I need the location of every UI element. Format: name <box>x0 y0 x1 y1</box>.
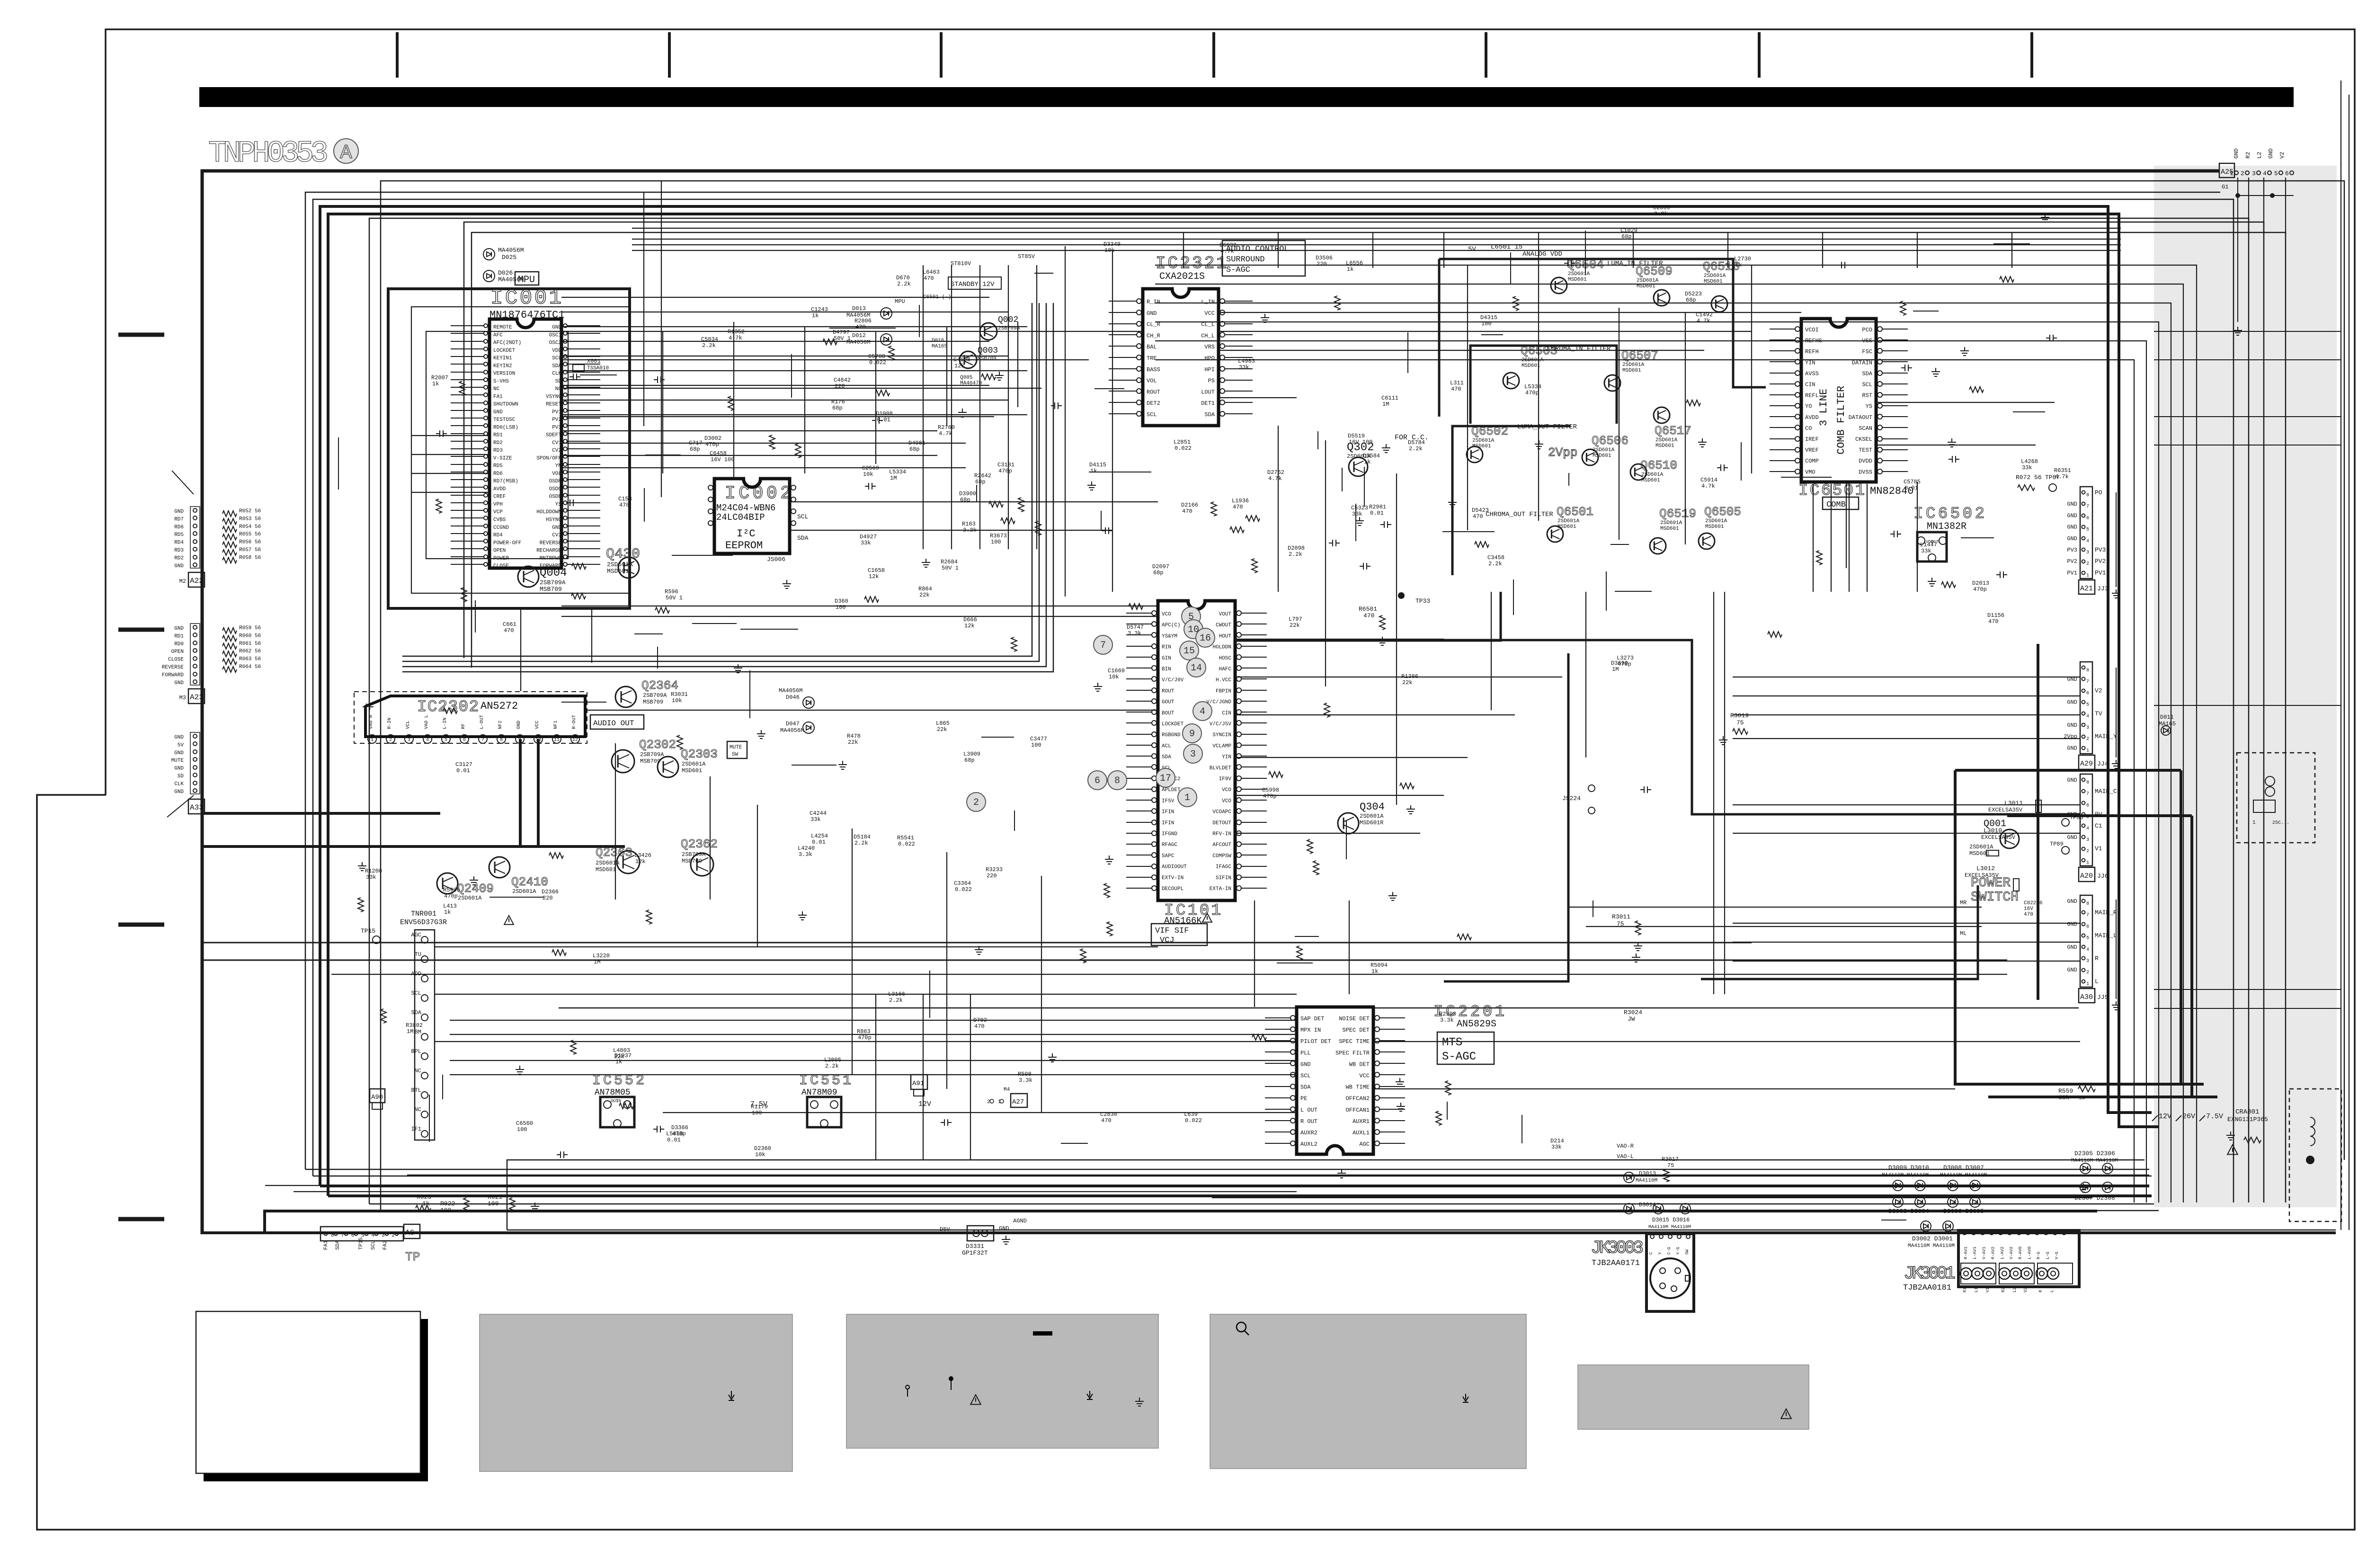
ground <box>1634 942 1642 951</box>
svg-text:3.3k: 3.3k <box>799 851 812 858</box>
svg-text:R060 56: R060 56 <box>239 633 261 639</box>
wire <box>663 1112 1297 1113</box>
svg-text:VCO: VCO <box>1222 787 1231 793</box>
svg-text:3 LINE: 3 LINE <box>1818 389 1830 426</box>
svg-text:RD4: RD4 <box>174 540 184 546</box>
svg-text:5V: 5V <box>1468 246 1476 253</box>
svg-text:220: 220 <box>543 895 553 901</box>
power bus audio horizontal 2 <box>201 812 440 815</box>
svg-text:1k: 1k <box>1347 266 1353 273</box>
svg-text:SDA: SDA <box>335 1240 341 1250</box>
svg-text:2: 2 <box>2086 970 2089 975</box>
svg-text:10k: 10k <box>1109 674 1119 680</box>
resistor network <box>222 534 237 540</box>
svg-text:DVDD: DVDD <box>1859 458 1872 464</box>
svg-text:MSD601: MSD601 <box>607 568 629 575</box>
svg-text:R021: R021 <box>488 1194 502 1201</box>
svg-text:A27: A27 <box>1012 1098 1024 1106</box>
wire to connector <box>1733 804 2080 805</box>
svg-text:SCL: SCL <box>1300 1073 1311 1079</box>
svg-text:D5V: D5V <box>940 1226 950 1233</box>
wire <box>710 776 711 900</box>
svg-text:C2830: C2830 <box>1100 1111 1117 1118</box>
wire <box>875 994 876 1160</box>
svg-text:G1: G1 <box>2222 184 2228 190</box>
bus wire <box>559 1007 2079 1009</box>
wire drop long <box>661 181 662 497</box>
svg-text:DATAIN: DATAIN <box>1852 359 1872 366</box>
legend box gray 3 <box>846 1314 1158 1448</box>
svg-text:REMOTE: REMOTE <box>493 325 512 330</box>
svg-text:GND: GND <box>2067 921 2077 927</box>
svg-text:33k: 33k <box>1352 511 1362 517</box>
svg-text:HOUT: HOUT <box>1219 633 1232 639</box>
svg-text:EXTV-IN: EXTV-IN <box>1162 875 1183 881</box>
heavy route IC101 to comb <box>1235 640 2080 814</box>
svg-text:APC(C): APC(C) <box>1162 623 1181 628</box>
svg-text:2SD601A: 2SD601A <box>1557 518 1580 524</box>
svg-text:L_IN: L_IN <box>1201 299 1215 305</box>
svg-text:REFL: REFL <box>1805 392 1819 399</box>
svg-text:SPEC FILTR: SPEC FILTR <box>1335 1050 1370 1056</box>
bus wire top band <box>632 239 2121 240</box>
resistor network <box>222 659 237 665</box>
svg-text:R1200: R1200 <box>365 868 382 874</box>
wire <box>1849 484 1850 592</box>
svg-text:S-AGC: S-AGC <box>1226 266 1250 275</box>
ground <box>1448 499 1457 507</box>
svg-text:100: 100 <box>1031 742 1041 748</box>
ruler tick top <box>1212 32 1215 78</box>
svg-text:L2851: L2851 <box>1174 439 1191 445</box>
svg-text:R: R <box>2095 955 2099 962</box>
svg-text:2SC...: 2SC... <box>2272 820 2289 826</box>
svg-text:470p: 470p <box>705 441 719 448</box>
ground <box>1105 855 1113 864</box>
svg-text:Q6519: Q6519 <box>1659 507 1696 521</box>
svg-text:OSC2: OSC2 <box>549 340 561 346</box>
svg-text:75: 75 <box>1736 719 1744 726</box>
svg-text:MUTE: MUTE <box>171 758 184 764</box>
svg-text:22k: 22k <box>1402 679 1413 686</box>
svg-text:A90: A90 <box>371 1094 383 1101</box>
connector A6 <box>320 1227 403 1241</box>
svg-text:GIN: GIN <box>1162 656 1171 661</box>
svg-text:RECHARGE: RECHARGE <box>536 548 561 554</box>
wire <box>946 852 947 1089</box>
svg-text:1k: 1k <box>422 1200 430 1207</box>
svg-text:68k: 68k <box>2058 1094 2070 1101</box>
svg-text:100: 100 <box>517 1126 527 1133</box>
svg-text:2SB709A: 2SB709A <box>643 692 667 699</box>
warning symbol <box>2227 1145 2238 1154</box>
ground <box>1698 438 1707 447</box>
svg-text:8: 8 <box>331 1233 334 1238</box>
svg-text:V/C/J9V: V/C/J9V <box>1162 677 1184 683</box>
svg-text:3: 3 <box>2086 725 2089 731</box>
wire A25 gnd <box>2237 178 2238 322</box>
svg-text:12V: 12V <box>2159 1113 2171 1121</box>
svg-text:4: 4 <box>1200 706 1205 717</box>
svg-text:L2: L2 <box>2256 152 2263 159</box>
svg-text:M3: M3 <box>179 695 186 701</box>
svg-text:OPEN: OPEN <box>171 649 184 655</box>
svg-text:DET1: DET1 <box>1201 400 1215 407</box>
svg-text:GND: GND <box>999 1225 1009 1232</box>
callout 5 <box>1182 607 1201 626</box>
svg-text:CIN: CIN <box>1222 711 1231 716</box>
svg-text:6: 6 <box>463 738 466 743</box>
svg-text:100: 100 <box>752 1110 762 1116</box>
resistor network <box>222 511 237 517</box>
svg-text:1: 1 <box>371 738 374 743</box>
svg-text:10: 10 <box>535 738 541 743</box>
svg-text:TEST: TEST <box>1859 447 1872 454</box>
wire drop <box>1917 232 1918 268</box>
svg-text:REVERSE: REVERSE <box>540 540 562 546</box>
resistor network <box>222 518 237 524</box>
svg-text:1k: 1k <box>1364 459 1370 465</box>
svg-text:CV2: CV2 <box>552 448 561 454</box>
svg-text:R3019: R3019 <box>1730 712 1749 719</box>
heavy route 4 <box>1235 592 1501 641</box>
svg-text:AVDD: AVDD <box>1805 414 1819 421</box>
svg-text:68p: 68p <box>832 405 843 411</box>
svg-text:V1: V1 <box>1985 1287 1990 1292</box>
svg-text:JJ3: JJ3 <box>2097 585 2108 592</box>
ground <box>1388 892 1397 900</box>
svg-text:470: 470 <box>1451 386 1461 392</box>
svg-text:R063 56: R063 56 <box>239 657 261 662</box>
diode D047 <box>803 722 814 733</box>
svg-text:CLOSE: CLOSE <box>493 563 509 569</box>
wire <box>1219 312 1801 313</box>
svg-text:RD6: RD6 <box>174 525 184 530</box>
svg-text:PCO: PCO <box>1862 327 1872 333</box>
svg-text:0.01: 0.01 <box>1370 510 1384 517</box>
ruler tick top <box>1758 32 1761 78</box>
svg-text:C3458: C3458 <box>1487 554 1504 561</box>
svg-text:EXNG131P365: EXNG131P365 <box>2227 1116 2268 1123</box>
wire drop <box>1727 232 1728 268</box>
svg-text:AGC: AGC <box>1359 1141 1370 1148</box>
diode D3010 <box>1915 1180 1925 1191</box>
svg-text:REFH: REFH <box>1805 348 1819 355</box>
svg-text:SCL: SCL <box>371 1240 376 1250</box>
bus wire ring 5 thick <box>328 214 2159 1196</box>
svg-text:FA2: FA2 <box>383 1240 388 1250</box>
label box STANDBY 12V <box>948 277 1001 289</box>
svg-text:HOLDDN: HOLDDN <box>1212 645 1231 650</box>
bus wire mid ring 3 <box>402 303 1046 667</box>
svg-text:D2098: D2098 <box>1288 545 1305 552</box>
wire <box>875 331 876 464</box>
bus wire top band <box>632 228 2121 229</box>
svg-text:PV2: PV2 <box>2067 558 2077 565</box>
svg-text:R3024: R3024 <box>1624 1009 1642 1016</box>
svg-text:RD1: RD1 <box>174 633 184 639</box>
ruler tick top <box>940 32 943 78</box>
svg-text:PV3: PV3 <box>552 425 561 430</box>
ground <box>2226 1131 2235 1140</box>
svg-text:26V: 26V <box>2182 1113 2195 1121</box>
svg-text:C4842: C4842 <box>834 377 851 383</box>
JK3003 pins <box>1650 1235 1654 1238</box>
wire <box>561 359 1089 360</box>
wire <box>1112 251 1113 592</box>
wire <box>1278 426 1279 592</box>
svg-text:470: 470 <box>1182 508 1192 515</box>
transistor Q6517 <box>1654 407 1670 423</box>
svg-text:ADD: ADD <box>411 971 421 977</box>
svg-text:L-AVO: L-AVO <box>2027 1247 2032 1259</box>
svg-text:COMB: COMB <box>1826 500 1846 509</box>
svg-text:AN5166K: AN5166K <box>1164 916 1202 926</box>
svg-text:GND: GND <box>2067 722 2077 729</box>
svg-text:COMPSW: COMPSW <box>1212 853 1231 859</box>
svg-text:9: 9 <box>518 738 521 743</box>
svg-text:MSD601R: MSD601R <box>1360 820 1383 826</box>
svg-text:16V 100: 16V 100 <box>711 456 734 463</box>
svg-text:GND: GND <box>2067 898 2077 905</box>
svg-text:VCOI: VCOI <box>1805 327 1819 333</box>
resistor network <box>222 526 237 532</box>
bus wire ring 2 <box>305 192 2220 1169</box>
wire stub gray <box>2154 331 2341 332</box>
svg-text:JJ5: JJ5 <box>2097 994 2108 1001</box>
transistor Q6506 <box>1582 449 1598 465</box>
diode D2306 <box>2102 1163 2113 1174</box>
svg-text:2SB709A: 2SB709A <box>640 751 664 758</box>
wire stub gray <box>2154 445 2341 445</box>
IC6502 body <box>1917 532 1947 561</box>
svg-text:4.7k: 4.7k <box>1697 318 1710 324</box>
svg-text:6: 6 <box>351 1233 355 1238</box>
svg-text:NC: NC <box>415 1068 421 1074</box>
label box MTS S-AGC <box>1437 1032 1494 1064</box>
bus wire ring 6 <box>369 218 2249 1204</box>
svg-text:D3349: D3349 <box>1103 241 1121 248</box>
svg-text:RD2: RD2 <box>174 555 184 561</box>
IC2321 left pins <box>1137 299 1141 303</box>
svg-text:R2: R2 <box>2245 152 2251 159</box>
svg-text:FBPIN: FBPIN <box>1216 688 1231 694</box>
svg-text:GND: GND <box>2067 745 2077 751</box>
svg-text:KEYIN1: KEYIN1 <box>493 356 512 361</box>
bus wire ring 1 bottom <box>381 1210 2159 1212</box>
svg-text:TV: TV <box>2095 710 2102 717</box>
transistor Q302 <box>1349 457 1368 476</box>
svg-text:YIN: YIN <box>1222 755 1231 760</box>
wire <box>1491 592 1492 710</box>
svg-text:D670: D670 <box>896 275 910 281</box>
svg-text:C5785: C5785 <box>1904 479 1921 485</box>
svg-text:5: 5 <box>2086 815 2089 820</box>
wire <box>1467 265 1468 530</box>
svg-text:L-G: L-G <box>2046 1252 2050 1259</box>
ground <box>757 730 765 739</box>
diode D2308 <box>2102 1182 2113 1193</box>
svg-text:V-G: V-G <box>2055 1252 2059 1259</box>
svg-text:R_IN: R_IN <box>1147 299 1160 305</box>
svg-text:C1: C1 <box>2095 822 2102 829</box>
svg-text:2.2k: 2.2k <box>825 1063 839 1069</box>
svg-text:D5584: D5584 <box>1363 453 1380 459</box>
svg-text:MA4056M: MA4056M <box>498 247 524 254</box>
wire <box>561 341 989 342</box>
svg-text:MSD601: MSD601 <box>1568 277 1587 283</box>
svg-text:L1936: L1936 <box>1232 498 1249 504</box>
dashed degauss block <box>2289 1089 2341 1221</box>
svg-text:MSB709: MSB709 <box>682 858 702 864</box>
callout 4 <box>1193 702 1212 721</box>
bus wire ring 8 <box>472 232 2286 1203</box>
svg-text:75: 75 <box>1667 1162 1674 1169</box>
wire A25 pin drop <box>2248 178 2249 234</box>
IC002 right pins <box>791 485 796 490</box>
svg-text:SDA: SDA <box>1862 370 1872 377</box>
svg-text:2SD601A: 2SD601A <box>1593 447 1615 453</box>
wire <box>1373 1088 1955 1089</box>
svg-text:MSD601: MSD601 <box>1472 444 1491 449</box>
wire <box>1219 331 1752 332</box>
svg-text:IF1: IF1 <box>411 1126 421 1132</box>
wire <box>733 322 734 479</box>
wire <box>520 608 521 691</box>
svg-text:YS&YM: YS&YM <box>1162 633 1177 639</box>
svg-text:MSB709: MSB709 <box>540 586 562 593</box>
svg-text:R2007: R2007 <box>431 374 448 381</box>
svg-text:C6111: C6111 <box>1381 395 1398 401</box>
svg-text:DVSS: DVSS <box>1859 469 1872 475</box>
svg-text:VCP: VCP <box>493 509 503 515</box>
svg-text:1k: 1k <box>1090 468 1097 474</box>
svg-text:4: 4 <box>2263 170 2267 177</box>
ground <box>1261 314 1269 322</box>
svg-text:R5094: R5094 <box>1370 962 1388 969</box>
svg-text:2.2k: 2.2k <box>854 840 868 846</box>
test point TP88 <box>2062 819 2069 826</box>
svg-text:0.022: 0.022 <box>955 886 972 893</box>
svg-text:CLK: CLK <box>174 781 184 787</box>
svg-text:R176: R176 <box>831 399 845 405</box>
legend box white with shadow <box>420 1319 428 1481</box>
svg-text:RD3: RD3 <box>493 448 503 454</box>
ground <box>1948 438 1956 447</box>
ground <box>1406 805 1415 814</box>
wire <box>1867 484 1868 592</box>
svg-text:MSD601: MSD601 <box>1641 478 1660 483</box>
svg-text:D666: D666 <box>963 616 977 623</box>
svg-text:S-AGC: S-AGC <box>1442 1051 1476 1063</box>
svg-text:0.022: 0.022 <box>1175 445 1192 452</box>
svg-text:5: 5 <box>2086 527 2089 533</box>
svg-text:Q2362: Q2362 <box>681 837 718 851</box>
ground <box>1632 953 1640 962</box>
svg-text:3: 3 <box>1190 749 1196 760</box>
wire drop long 2 <box>643 192 644 426</box>
svg-text:2SD601A: 2SD601A <box>1360 813 1384 820</box>
board outline bottom <box>201 1231 2336 1234</box>
diode D013 <box>881 308 892 319</box>
wire <box>561 430 937 431</box>
svg-text:33k: 33k <box>366 874 376 881</box>
heavy route 2 <box>1444 653 1568 981</box>
svg-text:JK3001: JK3001 <box>1904 1264 1956 1284</box>
svg-text:RD5: RD5 <box>493 463 503 469</box>
svg-text:D2166: D2166 <box>1181 502 1198 508</box>
svg-text:0.01: 0.01 <box>812 839 826 846</box>
svg-text:470: 470 <box>1101 1117 1112 1124</box>
svg-text:HPI: HPI <box>1204 366 1215 373</box>
svg-text:D214: D214 <box>1550 1138 1564 1144</box>
svg-text:GND: GND <box>516 721 522 729</box>
resistor network <box>222 542 237 548</box>
svg-text:R-AV1: R-AV1 <box>1964 1247 1968 1259</box>
net label 12V <box>2152 1115 2158 1121</box>
svg-text:C5914: C5914 <box>1700 477 1717 483</box>
wire <box>615 743 616 900</box>
svg-text:RD3: RD3 <box>174 548 184 553</box>
svg-text:DECOUPL: DECOUPL <box>1162 886 1183 892</box>
ground <box>1928 578 1936 586</box>
svg-text:JW: JW <box>1628 1016 1635 1023</box>
svg-text:L-IN: L-IN <box>443 718 448 729</box>
ground <box>358 862 366 871</box>
ground <box>2112 1001 2120 1010</box>
svg-text:SW: SW <box>732 752 739 757</box>
svg-text:SDEFT: SDEFT <box>546 433 561 438</box>
svg-text:D2013: D2013 <box>1972 580 1989 587</box>
ground <box>1397 1103 1405 1111</box>
svg-text:MSD601: MSD601 <box>1622 368 1641 374</box>
svg-text:D3002: D3002 <box>704 435 721 442</box>
ruler tick top <box>668 32 671 78</box>
svg-text:MR: MR <box>1960 900 1967 906</box>
svg-text:Q005: Q005 <box>960 375 972 381</box>
label box AUDIO CONTROL <box>1222 241 1305 276</box>
connector A23 <box>193 625 197 629</box>
bus wire heavy bottom <box>265 1211 2097 1233</box>
diode D3013 <box>1624 1172 1634 1183</box>
wire stub gray <box>2154 989 2341 990</box>
svg-text:IFIN: IFIN <box>1162 820 1174 826</box>
svg-text:MSD601: MSD601 <box>1593 453 1611 459</box>
svg-text:C1658: C1658 <box>868 567 885 574</box>
svg-text:100: 100 <box>488 1200 498 1207</box>
svg-text:R2: R2 <box>2001 1287 2006 1292</box>
svg-text:SD: SD <box>178 774 184 779</box>
svg-text:2: 2 <box>389 738 392 743</box>
svg-text:4.7k: 4.7k <box>1220 248 1234 255</box>
svg-text:JJ4: JJ4 <box>2097 760 2109 767</box>
svg-text:5: 5 <box>2086 936 2089 941</box>
transistor Q304 <box>1338 813 1359 834</box>
wire to connector <box>1733 923 2080 924</box>
svg-text:C717: C717 <box>689 440 703 446</box>
svg-text:17: 17 <box>1160 773 1171 784</box>
svg-text:A91: A91 <box>912 1080 924 1087</box>
wire <box>1065 246 1066 597</box>
svg-text:ST810V: ST810V <box>951 260 971 267</box>
svg-text:8: 8 <box>1114 775 1120 786</box>
chroma section box 2 <box>1452 426 1571 575</box>
svg-text:R-AVO: R-AVO <box>2018 1247 2023 1259</box>
svg-text:6: 6 <box>2086 924 2089 929</box>
svg-text:SDA: SDA <box>1300 1084 1311 1091</box>
ground <box>1087 481 1096 490</box>
bus wire SDA <box>265 1185 1297 1186</box>
